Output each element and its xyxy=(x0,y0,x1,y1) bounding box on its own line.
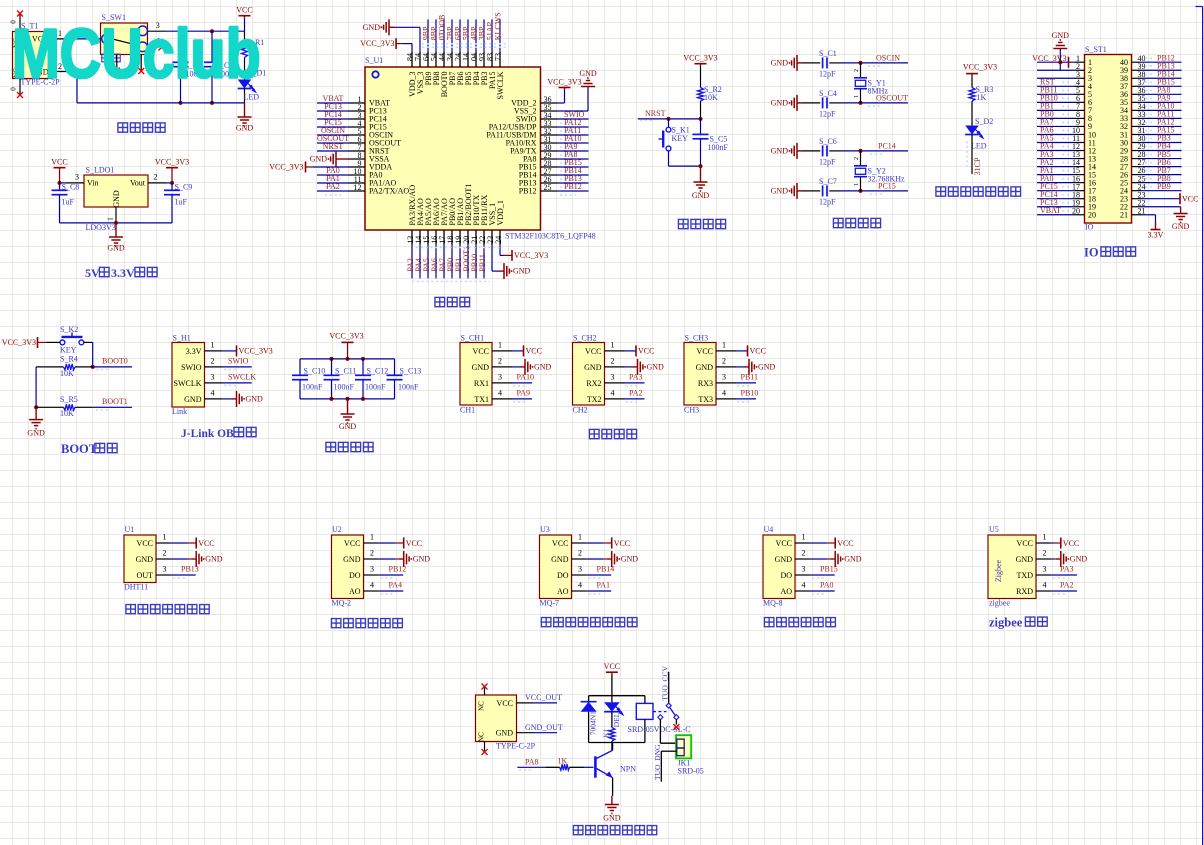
svg-text:12pF: 12pF xyxy=(819,109,836,118)
section title dian-yuan-dian-lu xyxy=(118,123,165,132)
ST1 right pin 21 xyxy=(1120,206,1146,219)
svg-text:J-Link OB: J-Link OB xyxy=(181,428,234,440)
svg-text:2: 2 xyxy=(854,157,860,160)
wire branch bottom rail xyxy=(589,743,645,751)
svg-text:2: 2 xyxy=(154,173,158,182)
svg-text:VCC: VCC xyxy=(406,539,422,548)
no-connect X on relay contact xyxy=(673,724,679,730)
U1 left pin 11 PA1/AO xyxy=(317,174,396,188)
module U1 DHT11 xyxy=(124,525,223,592)
svg-text:DO: DO xyxy=(557,571,569,580)
U1 top pin 45 PB8 xyxy=(430,19,441,85)
svg-text:GND: GND xyxy=(603,814,621,823)
ST1 right pin 30 xyxy=(1120,134,1182,148)
net label GND_OUT + wire xyxy=(517,723,563,733)
svg-text:KEY: KEY xyxy=(672,134,689,143)
svg-text:2: 2 xyxy=(802,548,806,557)
resistor S_R2 10K xyxy=(698,67,722,119)
svg-text:VCC_3V3: VCC_3V3 xyxy=(155,158,189,167)
power VCC_3V3 for LDO output xyxy=(155,158,189,183)
U1 bottom pin 21 PB10/TX xyxy=(470,195,481,279)
svg-text:3: 3 xyxy=(578,564,582,573)
ST1 left pin 6 xyxy=(1037,94,1092,108)
svg-text:SWCLK: SWCLK xyxy=(174,379,202,388)
ST1 right pin 23 xyxy=(1120,190,1146,203)
svg-text:NRST: NRST xyxy=(645,109,666,118)
svg-text:VDD_1: VDD_1 xyxy=(496,200,505,225)
capacitor S_C8 1uF xyxy=(52,183,80,223)
section title chuan-kou-dian-lu (serial) xyxy=(589,429,636,438)
svg-text:VCC: VCC xyxy=(697,347,713,356)
U1 right pin 28 PB15 xyxy=(519,158,589,172)
svg-text:20: 20 xyxy=(1088,211,1096,220)
svg-text:PA2: PA2 xyxy=(326,182,340,191)
svg-text:NC: NC xyxy=(477,701,485,711)
svg-text:4: 4 xyxy=(722,389,726,398)
no-connect X bottom of relay TYPE-C xyxy=(482,749,488,755)
U1 top pin 41 PB5 xyxy=(462,19,473,85)
svg-text:NPN: NPN xyxy=(620,765,636,774)
U1 right pin 36 VDD_2 xyxy=(511,95,557,108)
svg-text:PA3: PA3 xyxy=(629,372,643,381)
crystal S_Y2 32.768KHz xyxy=(854,151,905,191)
ST1 left pin 20 xyxy=(1037,206,1096,220)
svg-text:3: 3 xyxy=(163,564,167,573)
svg-text:S_LDO1: S_LDO1 xyxy=(86,166,115,175)
svg-text:24: 24 xyxy=(494,236,503,244)
svg-text:2: 2 xyxy=(854,69,860,72)
svg-text:GND: GND xyxy=(205,555,223,564)
net label PC13 vertical wire xyxy=(967,135,982,176)
svg-text:GND: GND xyxy=(621,555,639,564)
resistor S_R3 1K xyxy=(969,76,993,125)
svg-text:VCC: VCC xyxy=(837,539,853,548)
wire LDO input node xyxy=(58,181,67,185)
power VCC_3V3 on ST1 pin 1 xyxy=(1032,54,1068,67)
svg-text:3: 3 xyxy=(498,373,502,382)
svg-text:GND: GND xyxy=(775,555,793,564)
ground GND reset xyxy=(692,164,710,200)
svg-text:4: 4 xyxy=(211,389,215,398)
svg-text:IO: IO xyxy=(1085,223,1094,232)
svg-text:12pF: 12pF xyxy=(819,69,836,78)
svg-text:S_K2: S_K2 xyxy=(60,325,78,334)
wire contact to JK1 pin1 xyxy=(660,719,676,743)
svg-text:2: 2 xyxy=(370,548,374,557)
svg-text:DO: DO xyxy=(349,571,361,580)
power VCC relay xyxy=(604,662,620,675)
svg-text:S_C1: S_C1 xyxy=(819,49,837,58)
svg-text:GND: GND xyxy=(758,362,776,371)
U1 bottom pin 15 PA5/AO xyxy=(422,198,433,278)
ground GND power circuit xyxy=(236,103,254,133)
svg-text:S_C9: S_C9 xyxy=(175,183,193,192)
svg-text:TYPE-C-2P: TYPE-C-2P xyxy=(496,742,536,751)
power VCC_3V3 on VDD_2 pin 36 xyxy=(547,78,581,104)
connector TYPE-C-2P relay xyxy=(476,686,536,752)
power VCC_3V3 on VDD_1 pin 24 xyxy=(500,245,548,261)
svg-text:S_C11: S_C11 xyxy=(335,367,357,376)
svg-text:RX3: RX3 xyxy=(698,379,713,388)
svg-text:100nF: 100nF xyxy=(302,383,323,392)
svg-text:GND: GND xyxy=(771,146,789,155)
ground GND on VSS_3 pin 47 xyxy=(363,19,420,51)
svg-text:10K: 10K xyxy=(60,369,74,378)
svg-text:DHT11: DHT11 xyxy=(124,583,148,592)
svg-text:GND: GND xyxy=(413,555,431,564)
svg-text:1: 1 xyxy=(854,183,860,186)
svg-text:Vout: Vout xyxy=(130,179,146,188)
svg-text:10K: 10K xyxy=(704,93,718,102)
ST1 right pin 32 xyxy=(1120,118,1182,132)
section title zhu-xin-pian (main chip) xyxy=(435,297,470,306)
svg-text:7004N1: 7004N1 xyxy=(588,711,597,735)
ground GND on H1 pin4 xyxy=(222,391,263,407)
svg-text:VCC: VCC xyxy=(1063,539,1079,548)
svg-text:MQ-8: MQ-8 xyxy=(763,599,783,608)
U1 right pin 26 PB13 xyxy=(519,174,589,188)
capacitor S_C9 1uF xyxy=(164,183,192,223)
net label SWIO + wire xyxy=(222,356,252,369)
svg-text:GND: GND xyxy=(513,267,531,276)
svg-text:PA3: PA3 xyxy=(1060,564,1074,573)
ground GND on VSS_2 pin 35 xyxy=(557,69,597,111)
svg-text:AO: AO xyxy=(349,587,361,596)
ST1 left pin 7 xyxy=(1037,102,1092,116)
U1 top pin 40 PB4 xyxy=(470,19,481,85)
svg-text:PB15: PB15 xyxy=(820,564,838,573)
svg-text:RX2: RX2 xyxy=(586,379,601,388)
section title J-Link-OB-jie-kou xyxy=(181,427,256,440)
svg-text:VCC: VCC xyxy=(776,539,792,548)
svg-text:GND: GND xyxy=(584,363,602,372)
svg-text:GND: GND xyxy=(496,729,514,738)
resistor S_R4 10K xyxy=(36,355,93,378)
svg-text:TX2: TX2 xyxy=(587,395,602,404)
wire LDO output node xyxy=(166,181,174,185)
svg-text:GND: GND xyxy=(27,429,45,438)
svg-text:DO: DO xyxy=(780,571,792,580)
section title 5V-to-3.3V xyxy=(85,266,157,280)
ST1 left pin 13 xyxy=(1037,150,1096,164)
svg-text:S_ST1: S_ST1 xyxy=(1085,45,1107,54)
svg-text:3.3V: 3.3V xyxy=(186,347,202,356)
svg-text:VCC: VCC xyxy=(638,347,654,356)
svg-text:PC14: PC14 xyxy=(878,142,896,151)
svg-text:PA1: PA1 xyxy=(597,580,611,589)
ST1 right pin 24 xyxy=(1120,182,1182,196)
svg-text:zigbee: zigbee xyxy=(989,616,1023,630)
dotted marks below bottom pins xyxy=(412,248,502,282)
svg-text:VCC: VCC xyxy=(344,539,360,548)
svg-text:1: 1 xyxy=(211,341,215,350)
U1 left pin 8 VSSA xyxy=(349,151,390,164)
net label BOOT0 + wire xyxy=(93,357,132,370)
switch label kai-guan xyxy=(102,54,120,62)
svg-text:PA9: PA9 xyxy=(517,388,531,397)
svg-text:GND: GND xyxy=(1070,555,1088,564)
svg-text:K1: K1 xyxy=(602,728,611,737)
module U5 zigbee xyxy=(988,525,1087,608)
svg-text:VCC: VCC xyxy=(1017,539,1033,548)
svg-text:GND: GND xyxy=(551,555,569,564)
svg-text:U4: U4 xyxy=(764,525,774,534)
svg-text:TUO_DNG: TUO_DNG xyxy=(653,744,662,780)
svg-text:4: 4 xyxy=(498,389,502,398)
U1 right pin 35 VSS_2 xyxy=(514,103,557,116)
svg-text:32.768KHz: 32.768KHz xyxy=(868,175,906,184)
ST1 right pin 26 xyxy=(1120,166,1182,180)
power VCC on ST1 pin 23 xyxy=(1142,193,1199,204)
U1 left pin 9 VDDA xyxy=(349,159,393,172)
resistor S_R1 1K xyxy=(242,31,265,79)
svg-text:S_C4: S_C4 xyxy=(819,89,837,98)
ST1 left pin 11 xyxy=(1037,134,1096,148)
svg-text:Zigbee: Zigbee xyxy=(994,559,1003,582)
ST1 right pin 37 xyxy=(1120,77,1182,91)
svg-text:U2: U2 xyxy=(332,525,342,534)
ST1 right pin 34 xyxy=(1120,102,1182,116)
power VCC_3V3 indicator xyxy=(963,63,997,77)
svg-text:SWCLK: SWCLK xyxy=(228,372,256,381)
svg-text:1uF: 1uF xyxy=(175,198,188,207)
svg-text:BOOT: BOOT xyxy=(61,442,98,456)
capacitor S_C3 100uF xyxy=(204,31,238,103)
svg-text:PA8: PA8 xyxy=(525,757,539,766)
svg-text:PB12: PB12 xyxy=(389,564,407,573)
net label NRST + wire xyxy=(638,109,703,121)
section title cheng-xu-yun-xing-zhi-shi-deng xyxy=(936,187,1021,196)
capacitor S_C13 100nF xyxy=(387,359,422,399)
ST1 right pin 27 xyxy=(1120,158,1182,172)
U1 left pin 4 PC15 xyxy=(317,118,387,132)
svg-text:OSCIN: OSCIN xyxy=(876,54,900,63)
svg-text:NRST: NRST xyxy=(323,142,344,151)
svg-text:PB11: PB11 xyxy=(741,372,759,381)
net label VCC_OUT + wire xyxy=(517,693,563,703)
svg-text:3: 3 xyxy=(611,373,615,382)
power VCC_3V3 on VDDA pin 9 xyxy=(269,162,348,173)
MCU S_U1 STM32F103C8T6_LQFP48 body xyxy=(365,56,596,241)
connector S_CH2 serial xyxy=(573,334,665,415)
svg-text:TX3: TX3 xyxy=(698,395,713,404)
module U3 MQ-7 xyxy=(540,525,639,608)
svg-text:1: 1 xyxy=(854,95,860,98)
svg-text:VCC_3V3: VCC_3V3 xyxy=(329,332,363,341)
svg-text:3: 3 xyxy=(75,173,79,182)
svg-text:100nF: 100nF xyxy=(365,383,386,392)
ST1 right pin 28 xyxy=(1120,150,1182,164)
svg-text:U5: U5 xyxy=(989,525,999,534)
svg-text:S_D2: S_D2 xyxy=(975,117,993,126)
svg-text:100nF: 100nF xyxy=(708,143,729,152)
svg-text:GND: GND xyxy=(771,186,789,195)
power VCC_3V3 reset xyxy=(683,54,717,67)
switch S_SW1 xyxy=(101,13,166,55)
svg-text:3.3V: 3.3V xyxy=(111,266,135,280)
svg-text:VCC_3V3: VCC_3V3 xyxy=(547,78,581,87)
svg-text:MQ-2: MQ-2 xyxy=(332,599,352,608)
svg-text:CH2: CH2 xyxy=(573,406,588,415)
svg-text:VCC_3V3: VCC_3V3 xyxy=(239,347,273,356)
no-connect X on SW1 pin1 xyxy=(159,45,165,51)
svg-text:GND: GND xyxy=(696,363,714,372)
U1 top pin 37 SWCLK xyxy=(494,12,505,99)
wire T1 pin1 to switch xyxy=(70,38,101,40)
U1 right pin 29 PA8 xyxy=(523,150,589,164)
svg-text:SWIO: SWIO xyxy=(181,363,202,372)
capacitor S_C6 12pF + PC14 row xyxy=(771,137,908,167)
svg-text:Vin: Vin xyxy=(87,179,99,188)
U1 top pin 48 VDD_3 xyxy=(406,52,417,97)
resistor 1K base xyxy=(546,756,594,770)
svg-text:2: 2 xyxy=(722,357,726,366)
filter top rail wire xyxy=(300,357,395,361)
svg-text:100nF: 100nF xyxy=(334,383,355,392)
svg-text:GND: GND xyxy=(136,555,154,564)
U1 right pin 31 PA10/RX xyxy=(506,134,589,148)
svg-text:BOOT0: BOOT0 xyxy=(102,357,128,366)
no-connect X top of S_T1 xyxy=(17,11,23,17)
svg-text:GND: GND xyxy=(1016,555,1034,564)
capacitor S_C7 12pF + PC15 row xyxy=(771,177,908,207)
U1 bottom pin 14 PA4/AO xyxy=(414,198,425,278)
LED S_D1 xyxy=(238,69,267,103)
svg-text:4: 4 xyxy=(802,580,806,589)
svg-text:5V: 5V xyxy=(85,266,100,280)
svg-text:2: 2 xyxy=(578,548,582,557)
svg-text:SRD-05: SRD-05 xyxy=(678,767,704,776)
svg-text:2: 2 xyxy=(211,357,215,366)
net label SWCLK + wire xyxy=(222,372,256,385)
U1 right pin 34 SWIO xyxy=(516,110,588,124)
svg-text:1K: 1K xyxy=(558,756,568,765)
U1 left pin 7 NRST xyxy=(317,142,390,156)
U1 left pin 1 VBAT xyxy=(317,94,390,108)
svg-text:S_R4: S_R4 xyxy=(60,355,78,364)
svg-text:GND: GND xyxy=(107,244,125,253)
svg-text:Link: Link xyxy=(172,407,187,416)
svg-text:1: 1 xyxy=(163,532,167,541)
svg-text:MCUclub: MCUclub xyxy=(12,14,261,93)
ground GND relay xyxy=(603,796,621,823)
svg-text:PB14: PB14 xyxy=(597,564,615,573)
header S_H1 J-Link body xyxy=(172,334,222,417)
wire K2 to BOOT0 node xyxy=(91,342,95,369)
crystal S_Y1 8MHz xyxy=(854,63,888,103)
U1 bottom pin 22 PB11/RX xyxy=(478,194,489,278)
svg-text:PB11: PB11 xyxy=(478,254,487,272)
svg-text:GND: GND xyxy=(771,58,789,67)
power VCC for LDO xyxy=(51,158,67,183)
svg-text:21: 21 xyxy=(1120,211,1128,220)
svg-text:RXD: RXD xyxy=(1016,587,1033,596)
svg-text:12pF: 12pF xyxy=(819,197,836,206)
transistor NPN xyxy=(595,743,636,796)
relay coil SRD-05VDC-SL-C xyxy=(628,696,691,743)
svg-text:GND: GND xyxy=(246,394,264,403)
svg-text:LED: LED xyxy=(244,93,260,102)
U1 bottom pin 13 PA3/RX/AO xyxy=(406,185,417,279)
svg-text:1: 1 xyxy=(370,532,374,541)
ST1 left pin 19 xyxy=(1037,198,1096,212)
svg-text:GND: GND xyxy=(1172,222,1190,231)
svg-text:AO: AO xyxy=(780,587,792,596)
svg-text:GND: GND xyxy=(472,363,490,372)
capacitor S_C11 100nF xyxy=(324,359,357,399)
ST1 left pin 14 xyxy=(1037,158,1096,172)
svg-text:BOOT1: BOOT1 xyxy=(102,397,128,406)
svg-text:3: 3 xyxy=(722,373,726,382)
svg-text:GND_OUT: GND_OUT xyxy=(525,723,563,732)
U1 left pin 2 PC13 xyxy=(317,102,387,116)
capacitor S_C1 12pF + OSCIN row xyxy=(771,49,908,79)
ST1 left pin 18 xyxy=(1037,190,1096,204)
svg-text:GND: GND xyxy=(534,362,552,371)
svg-text:GND: GND xyxy=(236,124,254,133)
svg-text:GND: GND xyxy=(844,555,862,564)
filter bottom rail wire xyxy=(300,397,395,401)
svg-text:2: 2 xyxy=(611,357,615,366)
svg-text:NC: NC xyxy=(477,732,485,742)
svg-text:VCC: VCC xyxy=(585,347,601,356)
svg-text:VCC_3V3: VCC_3V3 xyxy=(269,163,303,172)
ST1 right pin 33 xyxy=(1120,110,1182,124)
ground GND filter xyxy=(339,399,357,431)
U1 bottom pin 24 VDD_1 xyxy=(494,200,505,245)
svg-text:TUO_CCV: TUO_CCV xyxy=(660,665,669,700)
svg-text:VBAT: VBAT xyxy=(1040,206,1061,215)
U1 left pin 5 OSCIN xyxy=(317,126,393,140)
capacitor S_C10 100nF xyxy=(292,359,325,399)
svg-text:31CP: 31CP xyxy=(973,157,982,175)
svg-text:PA2: PA2 xyxy=(629,388,643,397)
section title qing-qi module xyxy=(764,618,835,627)
MCUclub logo watermark xyxy=(12,14,261,93)
ST1 right pin 29 xyxy=(1120,142,1182,156)
svg-text:S_C13: S_C13 xyxy=(400,367,422,376)
svg-text:CH1: CH1 xyxy=(460,406,475,415)
ground GND above ST1 + wire pin2 xyxy=(1052,31,1070,70)
ground GND boot xyxy=(27,407,45,437)
svg-text:GND: GND xyxy=(1052,31,1070,40)
svg-text:1: 1 xyxy=(722,341,726,350)
svg-text:S_CH2: S_CH2 xyxy=(573,334,597,343)
ST1 left pin 3 xyxy=(1037,70,1092,83)
svg-text:VCC_3V3: VCC_3V3 xyxy=(683,54,717,63)
svg-text:1: 1 xyxy=(802,532,806,541)
svg-text:73: 73 xyxy=(494,53,503,61)
U1 top pin 38 PA15 xyxy=(486,19,497,89)
svg-text:IO: IO xyxy=(1084,246,1099,260)
svg-text:KEY: KEY xyxy=(60,346,77,355)
svg-text:VCC: VCC xyxy=(51,158,67,167)
svg-text:S_U1: S_U1 xyxy=(365,56,383,65)
svg-text:VCC: VCC xyxy=(497,699,513,708)
U1 right pin 33 PA12/USB/DP xyxy=(489,118,589,132)
ST1 left pin 2 xyxy=(1037,62,1092,75)
ST1 left pin 9 xyxy=(1037,118,1092,132)
module U4 MQ-8 xyxy=(763,525,862,608)
svg-text:4: 4 xyxy=(1043,580,1047,589)
connector S_CH3 serial xyxy=(684,334,776,415)
svg-text:PB12: PB12 xyxy=(564,182,582,191)
section title jing-zhen-dian-lu (crystal) xyxy=(833,218,880,227)
U1 right pin 25 PB12 xyxy=(519,182,589,196)
ST1 right pin 36 xyxy=(1120,86,1182,100)
wire left vertical boot xyxy=(34,367,38,409)
header S_ST1 IO body xyxy=(1085,45,1132,232)
